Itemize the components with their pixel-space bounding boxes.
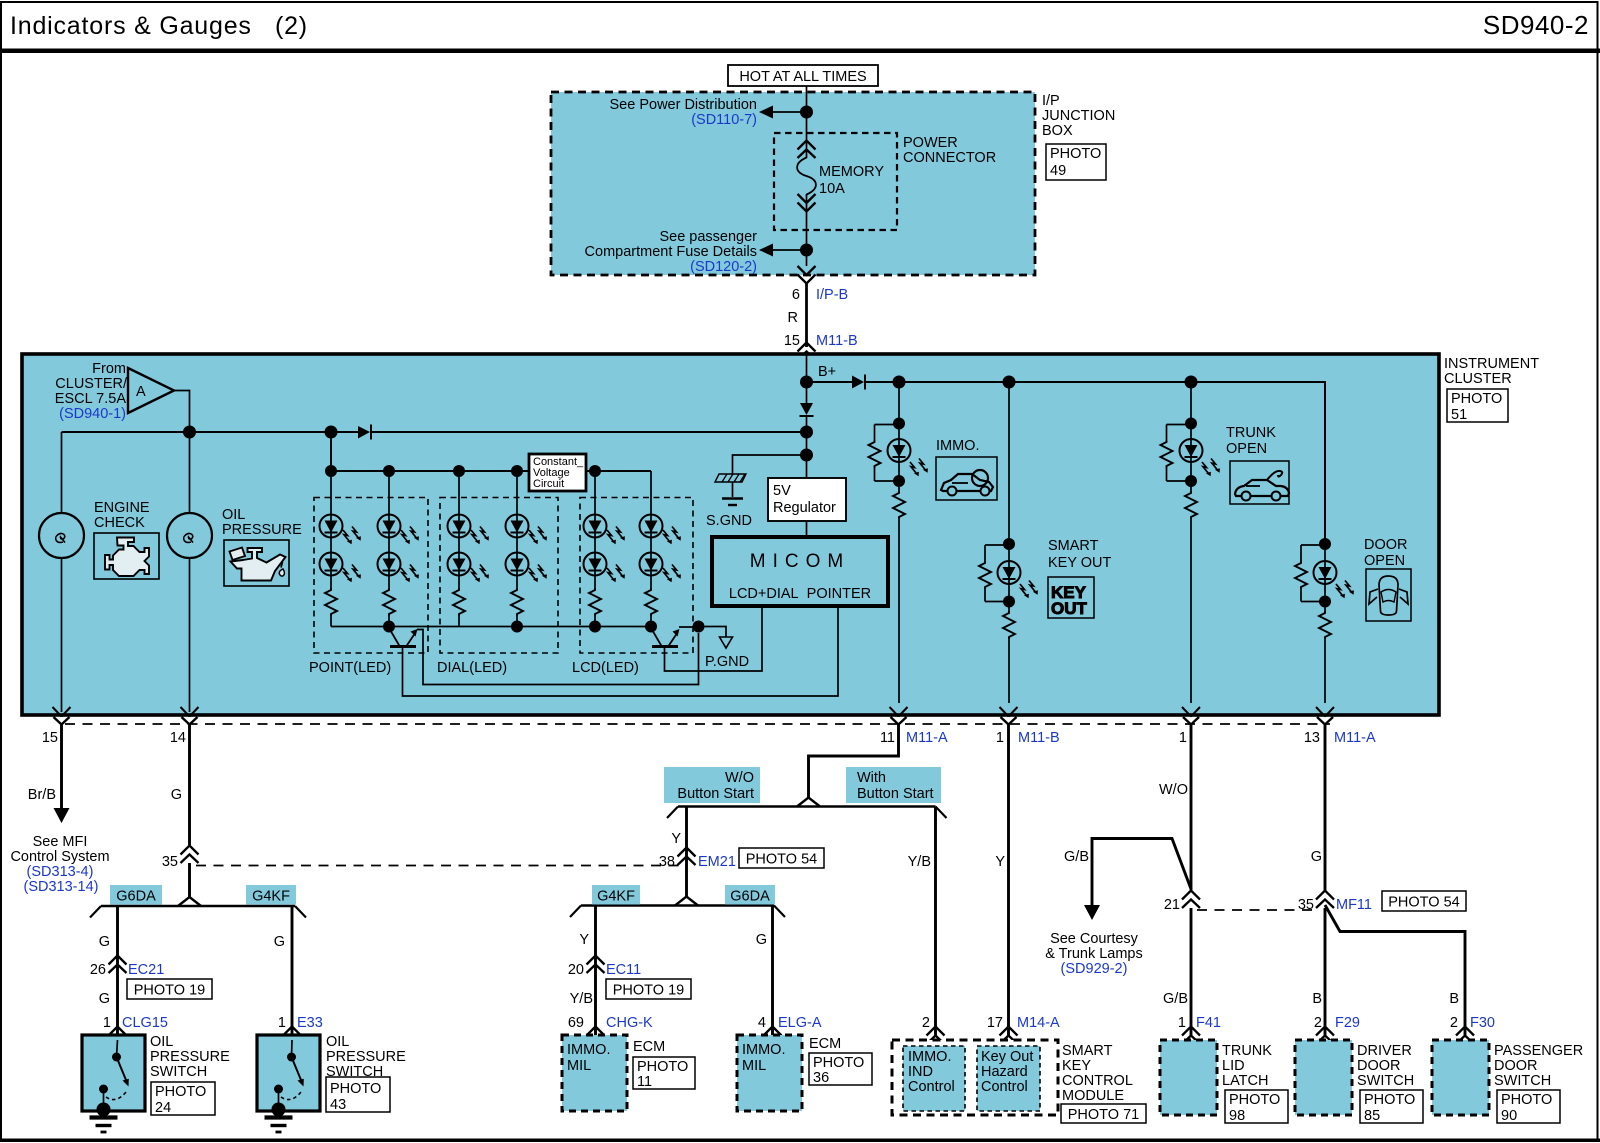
svg-text:G4KF: G4KF bbox=[252, 889, 290, 905]
svg-text:ELG-A: ELG-A bbox=[778, 1015, 822, 1031]
connector 35 in-line bbox=[181, 846, 199, 864]
svg-text:See MFI: See MFI bbox=[33, 834, 88, 850]
junction LED bus at x517 bbox=[511, 465, 523, 477]
box IMMO. IND Control bbox=[903, 1046, 965, 1111]
diode D3 on lamp bus bbox=[358, 425, 371, 440]
icon oil pressure bbox=[224, 540, 289, 586]
connector pin 11 at cluster bottom bbox=[890, 707, 908, 725]
wire G6DA branch down bbox=[116, 906, 119, 1035]
node With Button Start bbox=[846, 767, 941, 803]
svg-text:CLUSTER/: CLUSTER/ bbox=[55, 376, 128, 392]
label TRUNK LID LATCH bbox=[1222, 1043, 1272, 1089]
split tick right With bbox=[936, 807, 947, 819]
junction LED bus at x389 bbox=[383, 465, 395, 477]
connector EM21 in-line bbox=[678, 848, 696, 866]
wire M11-A pin 11 jog down bbox=[809, 725, 899, 799]
POINT(LED) dashed box bbox=[314, 498, 428, 654]
door open branch wire bbox=[1324, 382, 1326, 703]
junction door bracket top bbox=[1319, 538, 1331, 550]
svg-text:1: 1 bbox=[1179, 730, 1187, 746]
svg-text:10A: 10A bbox=[819, 181, 845, 197]
svg-text:POINT(LED): POINT(LED) bbox=[309, 660, 391, 676]
label PHOTO 90 bbox=[1497, 1090, 1560, 1124]
wire below connector 35 bbox=[188, 863, 191, 898]
svg-text:51: 51 bbox=[1451, 407, 1467, 423]
svg-text:M11-A: M11-A bbox=[1334, 730, 1376, 746]
svg-text:Indicators & Gauges (2): Indicators & Gauges (2) bbox=[10, 12, 308, 40]
net G6DA bbox=[110, 885, 162, 905]
svg-text:11: 11 bbox=[637, 1074, 652, 1090]
LED D9 bbox=[448, 553, 471, 576]
LED feed bus bbox=[331, 432, 651, 471]
wire trunk below connector 21 bbox=[1190, 908, 1193, 1035]
svg-text:1: 1 bbox=[278, 1015, 286, 1031]
svg-text:Button Start: Button Start bbox=[677, 786, 754, 802]
svg-text:CLG15: CLG15 bbox=[122, 1015, 168, 1031]
connector pin 1 M11-B at cluster bottom bbox=[1000, 707, 1018, 725]
node See Courtesy & Trunk Lamps (SD929-2) bbox=[1045, 931, 1143, 977]
breaker symbol A from cluster/ESCL bbox=[128, 368, 174, 413]
svg-text:A: A bbox=[136, 384, 146, 400]
wire G from pin 14 bbox=[188, 725, 191, 846]
svg-text:G/B: G/B bbox=[1064, 849, 1089, 865]
header rule bbox=[0, 49, 1600, 54]
svg-text:Button Start: Button Start bbox=[857, 786, 934, 802]
value label MEMORY 10A bbox=[819, 164, 884, 197]
svg-text:PRESSURE: PRESSURE bbox=[222, 522, 302, 538]
smart key out branch wire bbox=[1008, 382, 1010, 703]
DIAL(LED) dashed box bbox=[440, 498, 558, 654]
svg-text:B: B bbox=[1312, 991, 1322, 1007]
LED column 2 wire bbox=[388, 471, 390, 627]
label INSTRUMENT CLUSTER bbox=[1444, 356, 1539, 387]
wire trunk pin 1 down bbox=[1190, 725, 1193, 891]
svg-text:6: 6 bbox=[792, 287, 800, 303]
LED column 2 resistor bbox=[381, 588, 397, 616]
diode D1 on B+ bus bbox=[852, 375, 865, 390]
label TRUNK OPEN bbox=[1226, 425, 1276, 457]
LED D15 bbox=[640, 553, 663, 576]
svg-text:PHOTO: PHOTO bbox=[1364, 1092, 1415, 1108]
box Constant Voltage Circuit bbox=[529, 454, 586, 491]
LED column 3 wire bbox=[458, 471, 460, 627]
svg-text:See Power Distribution: See Power Distribution bbox=[610, 97, 758, 113]
net G4KF middle bbox=[592, 885, 640, 905]
junction lamp bus at LED feed bbox=[325, 426, 338, 439]
svg-text:PHOTO 19: PHOTO 19 bbox=[613, 983, 684, 999]
svg-text:G6DA: G6DA bbox=[730, 889, 770, 905]
LED D13 bbox=[584, 553, 607, 576]
wire G4KF branch down bbox=[594, 906, 597, 1036]
svg-text:LCD(LED): LCD(LED) bbox=[572, 660, 639, 676]
junction trunk bracket bottom bbox=[1185, 475, 1197, 487]
svg-text:G/B: G/B bbox=[1163, 991, 1188, 1007]
wire M11-B pin 1 down bbox=[1007, 725, 1010, 1036]
split junction button start options bbox=[797, 798, 820, 807]
connector pin 6 I/P-B leaving junction box bbox=[798, 266, 816, 284]
svg-text:15: 15 bbox=[42, 730, 58, 746]
junction lamp bus at main vertical bbox=[800, 426, 813, 439]
svg-text:1: 1 bbox=[1178, 1015, 1186, 1031]
svg-text:PRESSURE: PRESSURE bbox=[326, 1049, 406, 1065]
resistor smart series bbox=[1001, 611, 1017, 639]
LED column 6 wire bbox=[650, 471, 652, 627]
svg-text:PHOTO: PHOTO bbox=[330, 1081, 381, 1097]
svg-text:ECM: ECM bbox=[809, 1036, 841, 1052]
bulb oil pressure bbox=[167, 513, 212, 558]
svg-text:Hazard: Hazard bbox=[981, 1064, 1028, 1080]
svg-text:G: G bbox=[756, 932, 767, 948]
wire option split bar bbox=[678, 805, 936, 807]
svg-text:69: 69 bbox=[568, 1015, 584, 1031]
arrow to MFI control system bbox=[54, 808, 70, 823]
svg-text:PHOTO 54: PHOTO 54 bbox=[746, 852, 817, 868]
svg-text:90: 90 bbox=[1501, 1108, 1517, 1124]
LED column 3 resistor bbox=[451, 588, 467, 616]
box IMMO. MIL in ECM 2 bbox=[737, 1035, 802, 1111]
svg-text:PHOTO: PHOTO bbox=[637, 1059, 688, 1075]
net G6DA middle bbox=[725, 885, 775, 905]
svg-text:OIL: OIL bbox=[222, 507, 245, 523]
POWER CONNECTOR dashed box bbox=[774, 133, 897, 230]
wire from breaker A to bus bbox=[174, 391, 190, 433]
I/P junction box bbox=[551, 92, 1035, 275]
svg-text:G: G bbox=[99, 934, 110, 950]
label OIL PRESSURE SWITCH bbox=[150, 1034, 230, 1080]
svg-text:CHECK: CHECK bbox=[94, 515, 145, 531]
svg-text:TRUNK: TRUNK bbox=[1222, 1043, 1272, 1059]
box passenger door switch bbox=[1432, 1040, 1489, 1115]
svg-text:MIL: MIL bbox=[742, 1058, 766, 1074]
svg-text:MF11: MF11 bbox=[1336, 897, 1372, 913]
LED D6 bbox=[378, 515, 401, 538]
svg-text:ECM: ECM bbox=[633, 1039, 665, 1055]
wire arrow to fuse details bbox=[759, 244, 807, 257]
svg-text:SMART: SMART bbox=[1048, 538, 1099, 554]
wire door pin 13 down bbox=[1324, 725, 1327, 891]
label DRIVER DOOR SWITCH bbox=[1357, 1043, 1414, 1089]
svg-text:F30: F30 bbox=[1470, 1015, 1495, 1031]
LED immo indicator bbox=[888, 439, 928, 476]
svg-text:5V: 5V bbox=[773, 483, 791, 499]
LED D12 bbox=[584, 515, 607, 538]
svg-text:LCD+DIAL POINTER: LCD+DIAL POINTER bbox=[729, 586, 871, 602]
svg-text:35: 35 bbox=[162, 854, 178, 870]
svg-text:Control: Control bbox=[981, 1079, 1028, 1095]
junction lamp bus at breaker feed bbox=[183, 426, 196, 439]
junction S.GND tap bbox=[800, 449, 813, 462]
switch box oil pressure switch 2 bbox=[257, 1035, 320, 1111]
split tick left WO bbox=[667, 807, 678, 819]
junction at power distribution tap bbox=[800, 106, 813, 119]
connector pin 17 into smart key module bbox=[1000, 1027, 1018, 1045]
svg-text:POWER: POWER bbox=[903, 135, 958, 151]
LED D10 bbox=[506, 515, 529, 538]
connector EC11 bbox=[587, 956, 605, 974]
svg-text:PHOTO 71: PHOTO 71 bbox=[1068, 1107, 1139, 1123]
label POWER CONNECTOR bbox=[903, 135, 996, 166]
label PHOTO 98 bbox=[1225, 1090, 1288, 1124]
label PHOTO 36 bbox=[809, 1053, 872, 1086]
svg-text:DOOR: DOOR bbox=[1364, 537, 1408, 553]
junction LED bus at x331 bbox=[325, 465, 337, 477]
svg-text:G: G bbox=[171, 787, 182, 803]
resistor immo parallel bbox=[869, 425, 900, 482]
svg-text:PHOTO: PHOTO bbox=[1501, 1092, 1552, 1108]
svg-text:MEMORY: MEMORY bbox=[819, 164, 884, 180]
junction LED bus at x459 bbox=[453, 465, 465, 477]
node See Power Distribution (SD110-7) bbox=[610, 97, 758, 128]
box driver door switch bbox=[1295, 1040, 1352, 1115]
svg-text:DOOR: DOOR bbox=[1357, 1058, 1401, 1074]
svg-text:Key Out: Key Out bbox=[981, 1049, 1033, 1065]
wire main vertical to regulator bbox=[806, 432, 808, 478]
svg-text:(SD313-14): (SD313-14) bbox=[24, 879, 99, 895]
svg-text:Y/B: Y/B bbox=[570, 991, 593, 1007]
connector pin 14 at cluster bottom bbox=[181, 707, 199, 725]
svg-text:SWITCH: SWITCH bbox=[1357, 1073, 1414, 1089]
dashed link connector 21 to MF11 bbox=[1197, 909, 1318, 911]
diode D2 down from B+ bbox=[800, 382, 814, 432]
wire split bar left bbox=[101, 905, 295, 907]
icon key out bbox=[1048, 577, 1094, 618]
LED cathode rail bbox=[331, 626, 651, 628]
svg-text:Compartment Fuse Details: Compartment Fuse Details bbox=[585, 244, 757, 260]
wire oil pressure lamp bbox=[189, 432, 191, 513]
svg-text:PHOTO 54: PHOTO 54 bbox=[1388, 895, 1459, 911]
connector pin 15 at cluster bottom bbox=[53, 707, 71, 725]
svg-text:LID: LID bbox=[1222, 1058, 1245, 1074]
svg-text:IMMO.: IMMO. bbox=[908, 1049, 952, 1065]
wire engine check lamp bbox=[61, 432, 63, 513]
connector pin into driver door switch bbox=[1316, 1027, 1334, 1045]
svg-text:SD940-2: SD940-2 bbox=[1483, 10, 1589, 40]
svg-text:(SD940-1): (SD940-1) bbox=[59, 406, 126, 422]
svg-text:MIL: MIL bbox=[567, 1058, 591, 1074]
node W/O Button Start bbox=[664, 767, 760, 803]
node See passenger Compartment Fuse Details (SD120-2) bbox=[585, 229, 758, 275]
wire Q1 emitter to P.GND junction bbox=[417, 630, 699, 685]
svg-text:1: 1 bbox=[103, 1015, 111, 1031]
box trunk lid latch bbox=[1160, 1040, 1217, 1115]
svg-text:PHOTO 19: PHOTO 19 bbox=[134, 983, 205, 999]
regulator 5V box bbox=[768, 478, 846, 521]
svg-text:MICOM: MICOM bbox=[750, 551, 850, 572]
wire branch to passenger door bbox=[1325, 905, 1465, 1035]
LED column 4 wire bbox=[516, 471, 518, 627]
box Key Out Hazard Control bbox=[977, 1046, 1040, 1111]
junction B+ bbox=[800, 376, 813, 389]
svg-text:SWITCH: SWITCH bbox=[1494, 1073, 1551, 1089]
svg-text:KEY: KEY bbox=[1062, 1058, 1091, 1074]
connector pin 2 into smart key module bbox=[927, 1027, 945, 1045]
wire W/O branch down bbox=[685, 807, 688, 899]
connector pin 15 M11-B entering cluster bbox=[798, 343, 816, 361]
label DOOR OPEN bbox=[1364, 537, 1408, 569]
wire G4KF branch down bbox=[291, 906, 294, 1035]
svg-text:36: 36 bbox=[813, 1070, 829, 1086]
svg-text:17: 17 bbox=[987, 1015, 1003, 1031]
INSTRUMENT CLUSTER box bbox=[22, 354, 1439, 715]
label ENGINE CHECK bbox=[94, 500, 150, 531]
svg-text:24: 24 bbox=[155, 1100, 171, 1116]
label PHOTO 54 bbox=[739, 848, 824, 868]
svg-text:1: 1 bbox=[996, 730, 1004, 746]
svg-text:DOOR: DOOR bbox=[1494, 1058, 1538, 1074]
svg-text:Br/B: Br/B bbox=[28, 787, 56, 803]
LCD(LED) dashed box bbox=[580, 498, 693, 654]
split tick left bbox=[90, 906, 101, 918]
module SMART KEY CONTROL MODULE bbox=[892, 1040, 1058, 1115]
label PHOTO 71 bbox=[1061, 1104, 1146, 1123]
svg-text:43: 43 bbox=[330, 1097, 346, 1113]
svg-text:(SD313-4): (SD313-4) bbox=[27, 864, 94, 880]
svg-text:13: 13 bbox=[1304, 730, 1320, 746]
LED D5 bbox=[320, 553, 343, 576]
wire arrow to See Power Distribution bbox=[759, 106, 807, 119]
svg-text:BOX: BOX bbox=[1042, 123, 1073, 139]
LED column 5 resistor bbox=[587, 588, 603, 616]
svg-text:26: 26 bbox=[90, 962, 106, 978]
label PHOTO 49 bbox=[1046, 144, 1106, 180]
svg-text:INSTRUMENT: INSTRUMENT bbox=[1444, 356, 1539, 372]
svg-text:OIL: OIL bbox=[326, 1034, 349, 1050]
svg-text:4: 4 bbox=[758, 1015, 766, 1031]
LED column 1 resistor bbox=[323, 588, 339, 616]
wire driver door below MF11 bbox=[1324, 908, 1327, 1035]
lamp bus wire bbox=[62, 431, 807, 433]
junction rail x517 bbox=[511, 621, 523, 633]
bulb engine check bbox=[39, 513, 84, 558]
icon engine check bbox=[94, 533, 159, 579]
icon trunk open car bbox=[1230, 461, 1289, 504]
wire Q2 emitter to P.GND junction bbox=[679, 626, 699, 628]
svg-text:From: From bbox=[92, 361, 126, 377]
svg-text:G: G bbox=[99, 991, 110, 1007]
svg-text:(SD120-2): (SD120-2) bbox=[690, 259, 757, 275]
svg-text:MODULE: MODULE bbox=[1062, 1088, 1124, 1104]
svg-text:E33: E33 bbox=[297, 1015, 323, 1031]
connector 21 in-line bbox=[1182, 891, 1200, 909]
svg-text:S.GND: S.GND bbox=[706, 513, 752, 529]
svg-text:Circuit: Circuit bbox=[533, 478, 564, 490]
connector pin into trunk lid latch bbox=[1182, 1027, 1200, 1045]
svg-text:G6DA: G6DA bbox=[116, 889, 156, 905]
svg-text:G4KF: G4KF bbox=[597, 889, 635, 905]
junction door bracket bottom bbox=[1319, 596, 1331, 608]
svg-text:P.GND: P.GND bbox=[705, 654, 749, 670]
svg-text:HOT AT ALL TIMES: HOT AT ALL TIMES bbox=[739, 69, 866, 85]
svg-text:PASSENGER: PASSENGER bbox=[1494, 1043, 1583, 1059]
ground P.GND bbox=[699, 627, 750, 671]
svg-text:PHOTO: PHOTO bbox=[155, 1084, 206, 1100]
label OIL PRESSURE bbox=[222, 507, 302, 538]
ground S.GND chassis symbol bbox=[706, 474, 752, 529]
svg-text:CHG-K: CHG-K bbox=[606, 1015, 653, 1031]
connector pin into oil pressure switch 1 bbox=[109, 1027, 127, 1045]
wire R from I/P-B to M11-B bbox=[805, 283, 808, 347]
wire into switch 1 bbox=[117, 1040, 118, 1057]
svg-text:With: With bbox=[857, 770, 886, 786]
wire With Button Start branch Y/B bbox=[934, 807, 937, 1036]
wire oil pressure to pin 14 bbox=[189, 558, 191, 712]
split tick right bbox=[295, 906, 306, 918]
LED trunk open bbox=[1180, 439, 1220, 476]
transistor Q2 lcd driver bbox=[651, 628, 680, 647]
switch box oil pressure switch 1 bbox=[82, 1035, 145, 1111]
wire to S.GND bbox=[733, 455, 807, 474]
resistor door parallel bbox=[1295, 545, 1325, 602]
svg-text:IMMO.: IMMO. bbox=[742, 1042, 786, 1058]
wire into switch 2 bbox=[291, 1040, 294, 1057]
junction LED bus at x595 bbox=[589, 465, 601, 477]
svg-text:G: G bbox=[1311, 849, 1322, 865]
split junction to G6DA / G4KF bbox=[178, 897, 201, 906]
wire Br/B from pin 15 bbox=[60, 725, 63, 810]
bottom border bbox=[0, 1139, 1600, 1143]
wire from HOT AT ALL TIMES down through junction box bbox=[806, 86, 808, 266]
svg-text:IMMO.: IMMO. bbox=[936, 438, 980, 454]
junction rail x651 bbox=[645, 621, 657, 633]
resistor immo series bbox=[891, 491, 907, 519]
svg-text:CLUSTER: CLUSTER bbox=[1444, 371, 1512, 387]
svg-text:38: 38 bbox=[659, 854, 675, 870]
svg-text:35: 35 bbox=[1298, 897, 1314, 913]
LED column 6 resistor bbox=[643, 588, 659, 616]
svg-text:EC21: EC21 bbox=[128, 962, 164, 978]
wire B+ entry bbox=[806, 354, 808, 382]
icon door open car bbox=[1366, 569, 1411, 621]
connector pin into ECM immo mil 1 bbox=[587, 1027, 605, 1045]
label SMART KEY OUT bbox=[1048, 538, 1112, 571]
connector pin 13 at cluster bottom bbox=[1316, 707, 1334, 725]
wire regulator to MICOM bbox=[806, 521, 808, 537]
junction rail x389 bbox=[383, 621, 395, 633]
LED column 1 wire bbox=[330, 471, 332, 627]
svg-text:M14-A: M14-A bbox=[1017, 1015, 1060, 1031]
wire split bar middle bbox=[581, 904, 774, 906]
arrow to courtesy and trunk lamps bbox=[1084, 905, 1100, 920]
wire engine check to pin 15 bbox=[61, 558, 63, 712]
svg-text:LATCH: LATCH bbox=[1222, 1073, 1268, 1089]
svg-text:PRESSURE: PRESSURE bbox=[150, 1049, 230, 1065]
wire G6DA branch down bbox=[771, 906, 774, 1036]
junction smart key branch top bbox=[1003, 376, 1016, 389]
connector line M11 dashed bbox=[65, 723, 1330, 725]
svg-text:I/P-B: I/P-B bbox=[816, 287, 848, 303]
wire Q2 base to MICOM bbox=[665, 607, 763, 671]
resistor smart parallel bbox=[979, 545, 1009, 602]
svg-text:PHOTO: PHOTO bbox=[1050, 146, 1101, 162]
svg-text:DRIVER: DRIVER bbox=[1357, 1043, 1412, 1059]
resistor door series bbox=[1317, 611, 1333, 639]
switch S2 oil pressure with ground bbox=[265, 1053, 304, 1133]
svg-text:20: 20 bbox=[568, 962, 584, 978]
junction rail x595 bbox=[589, 621, 601, 633]
svg-text:(SD110-7): (SD110-7) bbox=[691, 112, 757, 128]
LED D4 bbox=[320, 515, 343, 538]
svg-text:G: G bbox=[274, 934, 285, 950]
connector pin 1 M11-A at cluster bottom bbox=[1182, 707, 1200, 725]
junction trunk bracket top bbox=[1185, 418, 1197, 430]
svg-text:14: 14 bbox=[170, 730, 186, 746]
junction immo bracket top bbox=[893, 418, 905, 430]
svg-text:PHOTO: PHOTO bbox=[1451, 391, 1502, 407]
icon immo car bbox=[936, 457, 997, 500]
svg-text:R: R bbox=[788, 310, 798, 326]
svg-text:M11-A: M11-A bbox=[906, 730, 948, 746]
label PHOTO 85 bbox=[1360, 1090, 1423, 1124]
